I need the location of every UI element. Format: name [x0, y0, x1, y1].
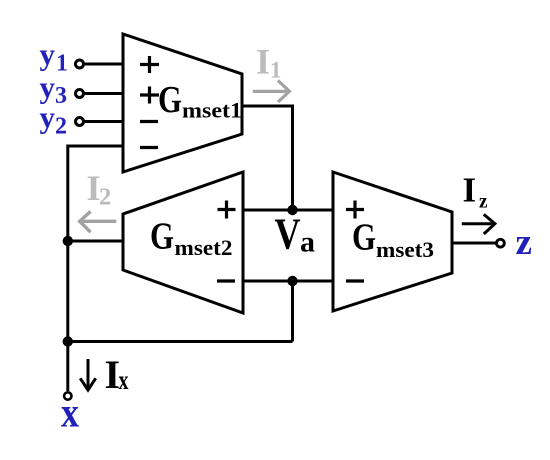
current label Ix: [105, 352, 129, 397]
wire Gmset3 output: [452, 242, 496, 245]
terminal x: [64, 392, 71, 399]
wire Gmset2 output: [68, 240, 123, 243]
terminal z: [497, 239, 505, 247]
wire x vertical bus: [66, 145, 69, 392]
label y1: [40, 37, 69, 77]
svg-text:mset3: mset3: [376, 237, 434, 262]
svg-text:2: 2: [99, 183, 111, 210]
svg-text:mset1: mset1: [182, 98, 242, 123]
svg-text:x: x: [119, 365, 129, 395]
svg-text:I: I: [463, 171, 477, 210]
terminal y3: [76, 90, 84, 98]
node x junction dot bottom: [63, 336, 73, 346]
wire y1 input: [84, 63, 123, 66]
svg-text:2: 2: [55, 114, 67, 140]
current arrow I2: [80, 211, 117, 232]
wire Gmset1 output vertical to node Va: [291, 105, 294, 211]
node Va junction dot: [287, 205, 297, 215]
node x junction dot at Gmset2 output: [63, 236, 73, 246]
terminal y1: [76, 60, 84, 68]
current arrow Iz: [462, 214, 495, 234]
svg-text:1: 1: [56, 51, 68, 77]
svg-text:y: y: [40, 37, 56, 72]
wire Va row plus inputs: [243, 209, 333, 212]
current arrow Ix: [80, 359, 96, 390]
node x junction dot on minus row: [287, 276, 297, 286]
svg-text:mset2: mset2: [175, 235, 233, 260]
svg-text:1: 1: [270, 58, 282, 83]
wire minus row: [243, 280, 333, 283]
current label I2: [87, 168, 112, 210]
op-amp U1 Gmset1: [123, 34, 242, 172]
svg-text:V: V: [275, 210, 301, 259]
svg-text:I: I: [256, 42, 270, 82]
label node Va: [275, 210, 316, 259]
current label Iz: [463, 171, 488, 213]
svg-text:G: G: [150, 216, 174, 258]
svg-text:z: z: [479, 189, 488, 213]
wire x to Gmset1 fourth input: [68, 145, 123, 148]
wire minus row drop: [291, 281, 294, 342]
svg-text:a: a: [300, 226, 315, 259]
svg-text:y: y: [40, 100, 56, 135]
current label I1: [256, 42, 282, 83]
op-amp U2 Gmset2: [123, 172, 243, 313]
op-amp U3 Gmset3: [333, 172, 452, 311]
current arrow I1: [253, 81, 290, 103]
svg-text:G: G: [352, 217, 376, 259]
svg-text:G: G: [158, 79, 182, 121]
terminal y2: [76, 118, 84, 126]
wire Gmset1 output horizontal: [240, 105, 293, 108]
svg-text:x: x: [61, 391, 79, 437]
label y2: [40, 100, 68, 140]
wire y3 input: [84, 92, 123, 95]
svg-text:3: 3: [55, 83, 67, 109]
svg-text:z: z: [516, 222, 532, 263]
label y3: [40, 70, 68, 110]
wire y2 input: [84, 120, 123, 123]
wire bottom to x: [68, 340, 293, 343]
